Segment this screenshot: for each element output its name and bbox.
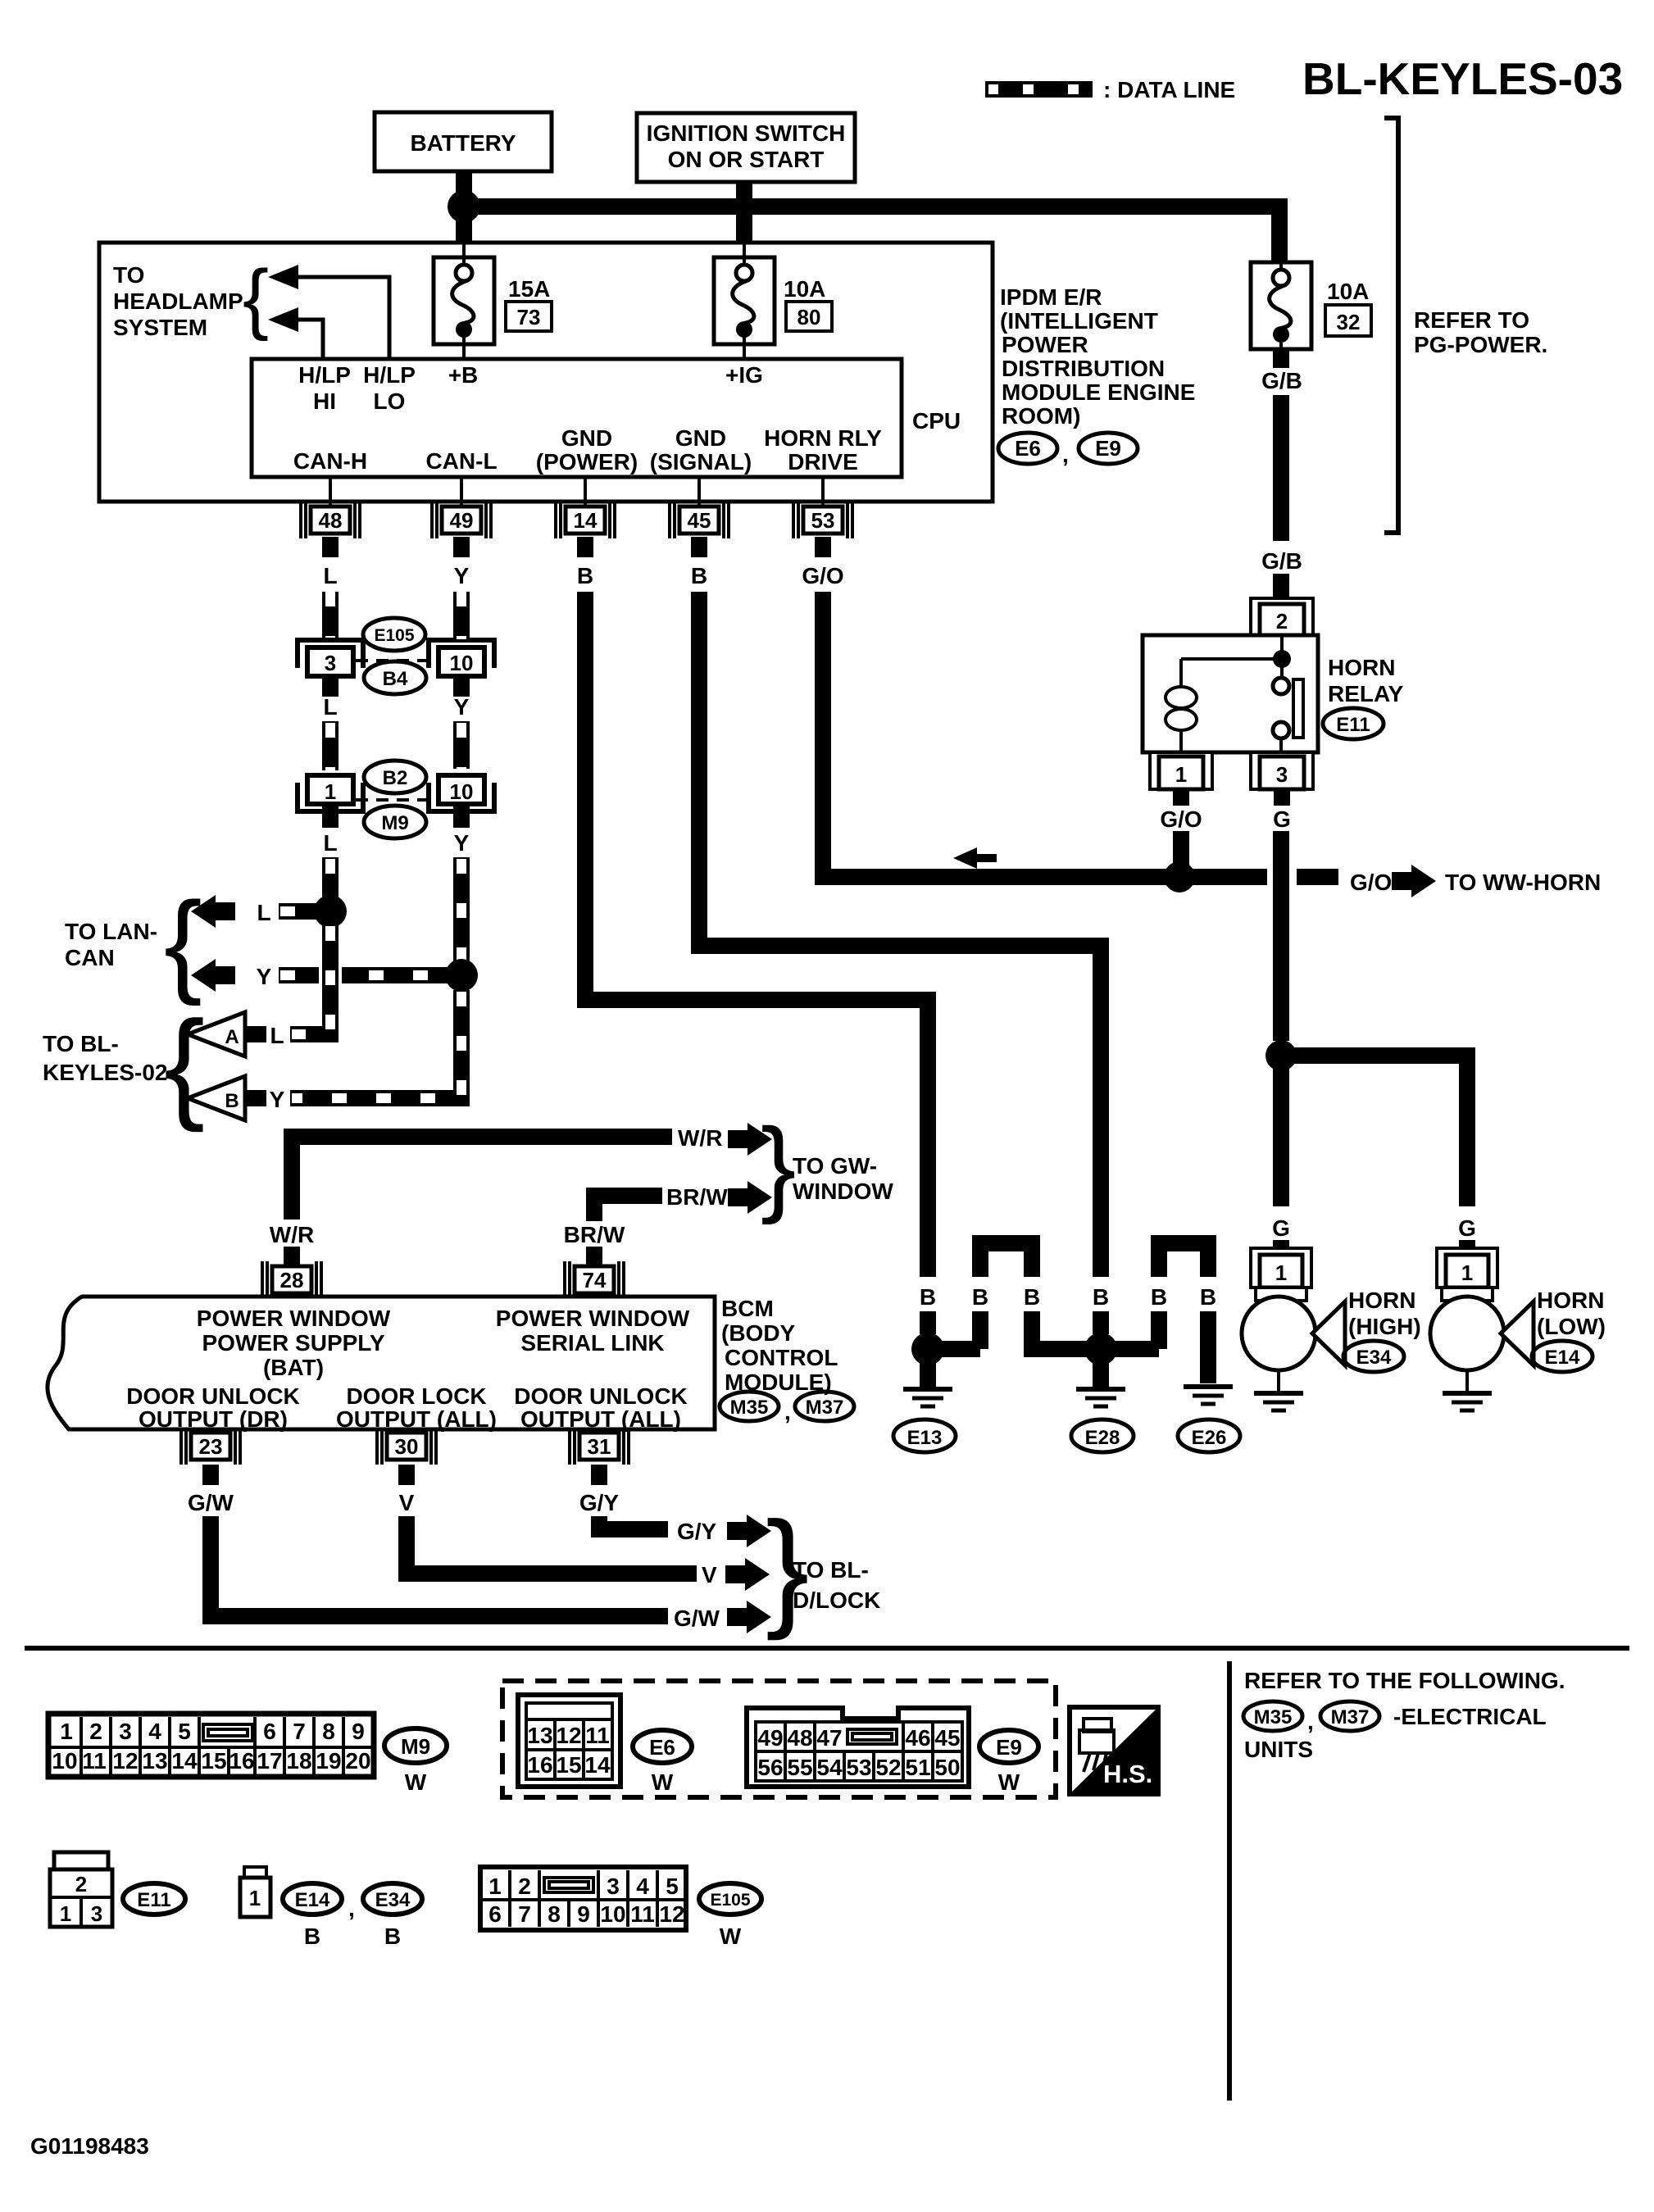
lan-can Y arrow [191, 959, 235, 992]
svg-text:9: 9 [577, 1901, 590, 1927]
svg-text:{: { [164, 995, 205, 1133]
svg-text:10A: 10A [1327, 279, 1369, 304]
svg-text:L: L [257, 900, 270, 925]
svg-text:(BODY: (BODY [721, 1320, 796, 1346]
svg-text:46: 46 [905, 1725, 930, 1751]
pin 31 [570, 1428, 629, 1465]
connector ref E6 [998, 433, 1057, 464]
svg-text:49: 49 [450, 508, 474, 533]
svg-text:47: 47 [816, 1725, 842, 1751]
connector ref B2 [364, 761, 426, 793]
svg-text:Y: Y [270, 1087, 285, 1112]
wire B from pin 14 [585, 592, 928, 1277]
svg-text:B: B [1093, 1284, 1109, 1310]
svg-text:M37: M37 [806, 1397, 844, 1419]
pin 45 [670, 502, 729, 538]
inline connector 10 lower (B2/M9) [429, 775, 494, 811]
svg-text:KEYLES-02: KEYLES-02 [43, 1060, 168, 1085]
wire G relay pin3 down [1274, 789, 1290, 806]
svg-text:1: 1 [60, 1719, 73, 1744]
svg-text:BL-KEYLES-03: BL-KEYLES-03 [1302, 53, 1623, 104]
svg-text:HORN: HORN [1328, 655, 1395, 680]
svg-text:E9: E9 [1095, 436, 1121, 461]
connector ref M9 [364, 806, 426, 838]
svg-text:11: 11 [585, 1723, 610, 1748]
svg-text:W: W [405, 1769, 427, 1795]
svg-text:50: 50 [934, 1755, 960, 1780]
connector ref E105 bottom [699, 1883, 761, 1949]
svg-text:BATTERY: BATTERY [410, 130, 516, 156]
svg-text:SERIAL LINK: SERIAL LINK [520, 1330, 664, 1356]
wire main bus battery to fuse 32 [464, 207, 1279, 262]
connector ref E34 [1343, 1341, 1404, 1372]
svg-text:B: B [691, 563, 707, 588]
connector ref M35 bottom [1243, 1701, 1302, 1731]
wire G/O relay pin1 to node [1173, 789, 1189, 806]
svg-text:11: 11 [630, 1901, 655, 1927]
svg-text:TO GW-: TO GW- [793, 1153, 877, 1179]
H.S. logo [1070, 1707, 1158, 1794]
svg-text:G: G [1458, 1215, 1476, 1241]
connector ref B4 [364, 661, 426, 694]
svg-text:B: B [304, 1924, 320, 1949]
arrow BR/W to gw-window [728, 1181, 772, 1214]
svg-text:TO WW-HORN: TO WW-HORN [1445, 870, 1601, 895]
wire battery stub to node [456, 171, 472, 193]
connector E105 pinout [480, 1867, 686, 1930]
svg-text:(SIGNAL): (SIGNAL) [650, 449, 752, 475]
svg-text:Y: Y [454, 563, 470, 588]
svg-text:A: A [225, 1026, 239, 1048]
arrowhead h/lp hi [268, 307, 298, 332]
svg-text:H/LP: H/LP [298, 362, 351, 388]
svg-text:GND: GND [561, 425, 612, 451]
fuse 10A 80 [743, 244, 746, 257]
bracket refer to pg-power [1384, 118, 1398, 533]
svg-text:E34: E34 [375, 1889, 411, 1911]
wire node to IPDM [456, 220, 472, 244]
svg-text:HORN: HORN [1348, 1288, 1415, 1313]
pin stubs bottom [202, 1465, 219, 1485]
horn relay box [1143, 635, 1318, 752]
Y stub under 10 [453, 679, 470, 697]
L stub under 3 [322, 679, 339, 697]
svg-text:IPDM E/R: IPDM E/R [1000, 284, 1102, 310]
svg-text:E105: E105 [710, 1891, 750, 1910]
svg-text:POWER WINDOW: POWER WINDOW [197, 1306, 391, 1331]
svg-text:74: 74 [583, 1268, 607, 1292]
data wire Y below node to keyles-02 [290, 990, 461, 1098]
svg-text:5: 5 [666, 1874, 679, 1899]
wire G branch to horn low [1281, 1056, 1467, 1206]
connector ref M9 bottom [384, 1728, 447, 1795]
node battery junction [448, 190, 480, 223]
svg-text:1: 1 [1275, 1260, 1287, 1285]
inline connector 3 (E105/B4) [298, 640, 363, 676]
svg-text:E6: E6 [1015, 436, 1041, 461]
svg-text:B: B [972, 1284, 988, 1310]
svg-text:20: 20 [345, 1748, 370, 1774]
svg-text:BCM: BCM [721, 1296, 774, 1321]
wire G/O horizontal from pin 53 [823, 592, 1179, 877]
svg-text:CPU: CPU [912, 408, 961, 434]
svg-text:(BAT): (BAT) [263, 1355, 324, 1380]
svg-text:3: 3 [325, 651, 336, 675]
svg-text:BR/W: BR/W [666, 1184, 728, 1210]
pin 74 [565, 1261, 624, 1298]
svg-text:31: 31 [588, 1434, 611, 1459]
svg-text:M37: M37 [1331, 1706, 1370, 1728]
ground horn high [1277, 1370, 1280, 1392]
svg-text:B2: B2 [383, 767, 408, 789]
arrow to ww-horn [1392, 865, 1436, 897]
svg-text:5: 5 [178, 1719, 191, 1744]
svg-text:55: 55 [787, 1755, 812, 1780]
svg-text:SYSTEM: SYSTEM [113, 315, 207, 340]
svg-text:Y: Y [257, 964, 272, 989]
relay pin 1 [1150, 752, 1212, 789]
svg-text:POWER WINDOW: POWER WINDOW [496, 1306, 690, 1331]
svg-text:12: 12 [112, 1748, 138, 1774]
connector ref E11 [1323, 708, 1384, 739]
svg-text:L: L [323, 563, 337, 588]
svg-text:PG-POWER.: PG-POWER. [1414, 332, 1547, 357]
svg-text:POWER: POWER [1002, 332, 1088, 357]
svg-text:G/W: G/W [188, 1490, 234, 1515]
dashed harness box [502, 1681, 1056, 1797]
svg-text:23: 23 [199, 1434, 223, 1459]
wire B bridge E13 to E28 [928, 1341, 980, 1357]
svg-text:53: 53 [811, 508, 835, 533]
pin 23 [181, 1428, 240, 1465]
svg-text:3: 3 [119, 1719, 132, 1744]
svg-text:,: , [1062, 442, 1069, 467]
node G junction [1265, 1040, 1297, 1071]
svg-text:{: { [243, 254, 269, 342]
svg-text:G/O: G/O [1350, 870, 1392, 895]
svg-text:B: B [920, 1284, 936, 1310]
svg-text:1: 1 [325, 779, 336, 804]
svg-text:14: 14 [584, 1752, 611, 1778]
svg-text:,: , [784, 1399, 791, 1424]
svg-text:E6: E6 [649, 1735, 675, 1760]
wire W/R from pin 28 [292, 1137, 672, 1220]
node G/O junction [1164, 861, 1195, 893]
wire h/lp lo arrow [289, 277, 389, 359]
vertical divider [1227, 1661, 1232, 2101]
svg-text:16: 16 [229, 1748, 254, 1774]
wire B from pin 45 [699, 592, 1101, 1277]
svg-text:TO: TO [113, 262, 144, 288]
svg-text:}: } [761, 1106, 796, 1225]
svg-text:REFER TO THE FOLLOWING.: REFER TO THE FOLLOWING. [1244, 1668, 1565, 1693]
connector ref E9 [1079, 433, 1138, 464]
svg-text:CAN-H: CAN-H [293, 448, 367, 474]
pin 28 [262, 1261, 321, 1298]
svg-text:54: 54 [816, 1755, 843, 1780]
svg-text:ON OR START: ON OR START [668, 147, 825, 172]
svg-text:M35: M35 [1254, 1706, 1293, 1728]
svg-text:-ELECTRICAL: -ELECTRICAL [1393, 1704, 1547, 1729]
lan-can L arrow [191, 895, 235, 928]
svg-text:E11: E11 [137, 1889, 170, 1911]
inline connector 10 upper (E105/B4) [429, 640, 494, 676]
svg-text:10A: 10A [784, 276, 825, 302]
svg-text:G/O: G/O [802, 563, 843, 588]
legend data line sample [985, 81, 1093, 98]
svg-text:HEADLAMP: HEADLAMP [113, 288, 243, 314]
ground E13 [920, 1360, 936, 1387]
connector E14/E34 pinout [240, 1867, 270, 1917]
wire ignition down [736, 182, 752, 244]
svg-text:W: W [998, 1769, 1020, 1795]
svg-text:G: G [1272, 1215, 1290, 1241]
svg-text:M35: M35 [730, 1397, 769, 1419]
svg-text:51: 51 [905, 1755, 930, 1780]
svg-text:DOOR LOCK: DOOR LOCK [346, 1383, 486, 1409]
svg-text:45: 45 [688, 508, 711, 533]
svg-text:GND: GND [675, 425, 726, 451]
svg-text:B: B [1024, 1284, 1040, 1310]
svg-text:IGNITION SWITCH: IGNITION SWITCH [647, 120, 846, 146]
svg-text:DRIVE: DRIVE [788, 449, 858, 475]
svg-text:12: 12 [556, 1723, 581, 1748]
wire G to horn high [1273, 1056, 1289, 1206]
svg-text:1: 1 [249, 1886, 261, 1910]
dashed link B2/M9 [356, 798, 431, 802]
svg-text:OUTPUT (ALL): OUTPUT (ALL) [336, 1406, 497, 1432]
separator line [25, 1646, 1629, 1651]
triangle connector A [188, 1012, 245, 1056]
svg-text:4: 4 [148, 1719, 161, 1744]
pin 49 [432, 502, 491, 538]
svg-text:1: 1 [1461, 1260, 1473, 1285]
ground horn low [1465, 1370, 1469, 1392]
wire h/lp hi arrow [289, 320, 323, 359]
wire V to d/lock [407, 1516, 697, 1574]
dashed link E105/B4 [356, 659, 431, 662]
svg-text:7: 7 [518, 1901, 531, 1927]
svg-text:3: 3 [1276, 762, 1288, 787]
connector E11 pinout [50, 1852, 112, 1927]
connector ref E6 bottom [633, 1730, 692, 1795]
svg-text:14: 14 [171, 1748, 198, 1774]
wire G/B fuse to relay pin2 [1273, 349, 1289, 368]
svg-text:3: 3 [91, 1901, 102, 1926]
data wire Y seg3 to node [453, 857, 470, 962]
svg-text:15: 15 [556, 1752, 581, 1778]
wire BR/W from pin 74 [594, 1196, 662, 1221]
svg-text:1: 1 [1175, 762, 1187, 787]
svg-text:B: B [384, 1924, 401, 1949]
svg-text:G/B: G/B [1261, 368, 1302, 393]
crossing break Y/L [319, 965, 342, 986]
connector ref E11 bottom [123, 1883, 185, 1914]
connector ref M37 bottom [1320, 1701, 1379, 1731]
svg-text:,: , [348, 1896, 355, 1921]
svg-text:30: 30 [395, 1434, 419, 1459]
svg-text:DOOR UNLOCK: DOOR UNLOCK [126, 1383, 300, 1409]
svg-text:52: 52 [875, 1755, 901, 1780]
svg-text:10: 10 [600, 1901, 625, 1927]
svg-text:(INTELLIGENT: (INTELLIGENT [1000, 308, 1158, 334]
svg-text:2: 2 [1276, 609, 1288, 634]
svg-text:3: 3 [607, 1874, 620, 1899]
svg-text:HORN: HORN [1537, 1288, 1604, 1313]
wire B bridge E28 to E26 [1101, 1341, 1159, 1357]
svg-text:14: 14 [574, 508, 598, 533]
pin lines CPU to IPDM edge [329, 477, 332, 506]
svg-text:19: 19 [316, 1748, 341, 1774]
svg-text:HI: HI [313, 388, 336, 414]
svg-text:L: L [270, 1023, 284, 1048]
relay contact [1273, 635, 1303, 752]
data wire Y seg2 [453, 721, 470, 769]
svg-text:(LOW): (LOW) [1537, 1314, 1606, 1339]
svg-text:G/Y: G/Y [579, 1490, 620, 1515]
horn low connector pin 1 [1437, 1248, 1497, 1301]
svg-text:M9: M9 [401, 1734, 430, 1759]
node E13 junction [911, 1333, 944, 1365]
svg-text:G/O: G/O [1160, 806, 1202, 832]
pin stubs [322, 537, 339, 557]
data wire L seg1 [322, 592, 339, 641]
svg-text:W: W [652, 1769, 674, 1795]
svg-text:13: 13 [142, 1748, 167, 1774]
svg-text:W/R: W/R [270, 1222, 314, 1247]
svg-text:Y: Y [454, 694, 470, 720]
svg-text:B4: B4 [383, 668, 408, 690]
svg-text:CAN-L: CAN-L [425, 448, 497, 474]
connector ref M37 [795, 1392, 854, 1421]
svg-text:56: 56 [757, 1755, 783, 1780]
battery box B1 [375, 112, 552, 171]
svg-text:48: 48 [319, 508, 343, 533]
svg-text:RELAY: RELAY [1328, 681, 1404, 706]
svg-text:W: W [720, 1924, 742, 1949]
svg-text:{: { [164, 878, 202, 1006]
svg-text:8: 8 [548, 1901, 561, 1927]
data wire L seg2 [322, 721, 339, 770]
data wire Y to lan-can [279, 967, 448, 983]
pin 48 [301, 502, 360, 538]
svg-text:16: 16 [527, 1752, 552, 1778]
BCM box [48, 1297, 715, 1429]
ground E28 [1093, 1360, 1109, 1387]
svg-text:6: 6 [488, 1901, 502, 1927]
svg-text:B: B [577, 563, 593, 588]
svg-text:G/B: G/B [1261, 548, 1302, 574]
svg-text:TO BL-: TO BL- [43, 1031, 119, 1056]
svg-text:45: 45 [934, 1725, 960, 1751]
svg-text:10: 10 [450, 651, 474, 675]
horn low body [1430, 1297, 1504, 1370]
svg-text:B: B [1200, 1284, 1216, 1310]
relay pin 2 [1251, 598, 1313, 635]
svg-text:B: B [1151, 1284, 1167, 1310]
svg-text:DOOR UNLOCK: DOOR UNLOCK [514, 1383, 688, 1409]
svg-text:12: 12 [659, 1901, 684, 1927]
ignition switch box S1 [637, 113, 855, 182]
svg-text:E9: E9 [996, 1735, 1022, 1760]
connector ref M35 [720, 1392, 779, 1421]
svg-text:TO LAN-: TO LAN- [65, 919, 157, 944]
wire G/W to d/lock [211, 1516, 668, 1616]
connector ref E34 bottom [363, 1883, 422, 1949]
svg-text:ROOM): ROOM) [1002, 403, 1080, 429]
svg-text:9: 9 [352, 1719, 365, 1744]
svg-text:2: 2 [518, 1874, 531, 1899]
svg-text:18: 18 [286, 1748, 311, 1774]
svg-text:E11: E11 [1336, 714, 1370, 736]
svg-text:53: 53 [846, 1755, 871, 1780]
svg-text:10: 10 [52, 1748, 77, 1774]
horn high body [1242, 1297, 1315, 1370]
svg-text:48: 48 [787, 1725, 812, 1751]
svg-text:L: L [323, 694, 337, 720]
data wire L below node to keyles-02 [290, 924, 330, 1034]
svg-text:7: 7 [293, 1719, 306, 1744]
svg-text:V: V [399, 1490, 415, 1515]
connector ref E14 bottom [283, 1883, 342, 1949]
svg-text:BR/W: BR/W [564, 1222, 625, 1247]
connector ref E14 [1532, 1341, 1593, 1372]
ground E26 [1184, 1387, 1233, 1404]
svg-text:G: G [1273, 806, 1291, 832]
fuse 15A 73 [462, 244, 466, 257]
svg-text:: DATA LINE: : DATA LINE [1103, 77, 1235, 102]
svg-text:E14: E14 [295, 1889, 330, 1911]
svg-text:Y: Y [454, 830, 470, 856]
arrow to steering left on G/O [953, 847, 997, 869]
connector ref E105 [363, 618, 425, 651]
svg-text:CAN: CAN [65, 945, 115, 970]
svg-text:+B: +B [448, 362, 479, 388]
svg-text:WINDOW: WINDOW [793, 1179, 893, 1204]
svg-text:OUTPUT (DR): OUTPUT (DR) [139, 1406, 288, 1432]
triangle connector B [188, 1076, 245, 1120]
svg-text:G/Y: G/Y [677, 1519, 717, 1544]
data wire L to lan-can [279, 903, 316, 920]
node E28 junction [1084, 1333, 1117, 1365]
svg-text:(POWER): (POWER) [536, 449, 638, 475]
horn high connector pin 1 [1251, 1248, 1311, 1301]
svg-text:32: 32 [1337, 310, 1361, 334]
svg-text:10: 10 [450, 779, 474, 804]
data wire Y seg1 [453, 592, 470, 639]
svg-text:80: 80 [797, 305, 821, 329]
svg-text:REFER TO: REFER TO [1414, 307, 1529, 333]
pin 30 [377, 1428, 436, 1465]
svg-text:G/W: G/W [674, 1606, 720, 1631]
arrowhead h/lp lo [268, 265, 298, 289]
pin 14 [556, 502, 615, 538]
svg-text:1: 1 [60, 1901, 71, 1926]
svg-text:CONTROL: CONTROL [725, 1345, 838, 1370]
svg-text:UNITS: UNITS [1244, 1737, 1313, 1762]
relay coil [1166, 659, 1283, 752]
svg-text:13: 13 [527, 1723, 552, 1748]
horn high trumpet [1312, 1301, 1345, 1365]
svg-text:E14: E14 [1545, 1347, 1580, 1369]
svg-text:E105: E105 [374, 626, 414, 645]
svg-text:2: 2 [89, 1719, 102, 1744]
svg-text:D/LOCK: D/LOCK [793, 1587, 880, 1613]
svg-text:LO: LO [374, 388, 406, 414]
svg-text:V: V [702, 1562, 717, 1587]
svg-text:11: 11 [82, 1748, 107, 1774]
relay pin 3 [1251, 752, 1313, 789]
